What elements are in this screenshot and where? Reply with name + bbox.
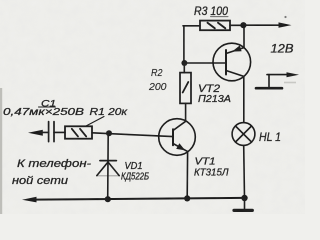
wire VT1 emitter down: [186, 152, 188, 199]
wire VT2 base lead: [184, 62, 226, 64]
diode VD1: [107, 133, 110, 199]
wire VT1 collector to R2: [185, 103, 187, 121]
capacitor C1: [49, 122, 54, 142]
wire C1 underline: [39, 106, 56, 108]
wire +12V feed with arrow: [243, 24, 281, 26]
node rail end: [241, 195, 247, 201]
node base junction VT2: [181, 60, 187, 66]
wire cap to R1: [54, 131, 65, 133]
wire line to telephone with arrow: [40, 131, 49, 133]
transistor VT2: [213, 43, 251, 81]
resistor R3: [200, 21, 230, 31]
speckles: [284, 16, 286, 18]
ground chassis bottom right: [244, 198, 246, 209]
wire lamp bottom to rail: [243, 145, 246, 198]
wire top rail left of R3: [183, 25, 200, 27]
lamp HL1: [232, 123, 255, 146]
wire VT2 collector down to lamp: [243, 76, 245, 122]
wire leader from label to R1: [86, 117, 104, 127]
wire left vertical from top rail to R2: [183, 26, 185, 73]
transistor VT1: [159, 119, 196, 156]
node VT1 emitter bottom: [184, 195, 190, 201]
resistor R1: [65, 126, 92, 138]
wire R1 to VT1 base: [92, 133, 173, 137]
wire R3 right to top junction: [230, 24, 243, 26]
ground chassis 12V return with arrow: [267, 74, 287, 76]
wire label underline 100: [211, 16, 229, 18]
resistor R2: [180, 73, 191, 104]
node R1-VD1 junction: [106, 130, 112, 136]
node top junction: [240, 22, 246, 28]
wire bottom rail: [34, 198, 245, 200]
node diode bottom: [105, 196, 111, 202]
wire VT2 emitter up: [243, 25, 245, 47]
